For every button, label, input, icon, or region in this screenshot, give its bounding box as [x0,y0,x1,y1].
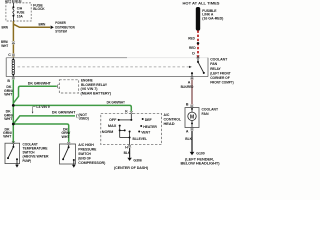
relay switch contacts [192,58,204,77]
wire branch to A/C head pin K [13,105,131,111]
svg-text:WHT: WHT [62,135,71,139]
svg-text:G100: G100 [196,151,204,155]
pin B of relay [12,77,15,80]
splice [197,42,200,45]
fusible link A [196,7,200,31]
svg-text:G306: G306 [133,158,141,162]
svg-text:RED: RED [189,46,196,50]
svg-text:COMPRESSOR): COMPRESSOR) [78,161,106,165]
mode switch wiring [119,114,132,145]
svg-text:BLOCK: BLOCK [33,7,45,11]
ground left switch [15,165,19,168]
wire RED dashed from fusible link to relay pin D [197,31,199,58]
pin connector [12,141,15,144]
fuse block dashed box [6,3,31,21]
svg-text:POWER: POWER [55,21,66,25]
svg-text:HEAD: HEAD [164,122,175,126]
connector at blower relay [56,84,59,88]
svg-text:DK GRN/WHT: DK GRN/WHT [52,110,76,114]
svg-text:DK GRN/WHT: DK GRN/WHT [28,81,52,85]
svg-text:HOT AT ALL TIMES: HOT AT ALL TIMES [183,1,221,5]
wire BLK/RED relay to fan [191,79,193,104]
svg-text:DEF: DEF [145,118,153,122]
junction node [12,123,15,126]
svg-text:(NEAR BATTERY): (NEAR BATTERY) [81,91,112,95]
svg-text:A: A [186,129,189,133]
svg-text:BELOW HEADLIGHT): BELOW HEADLIGHT) [181,161,221,165]
svg-text:COOLANT: COOLANT [210,58,228,62]
wire branch NOT USED [13,116,75,124]
svg-text:RELAY: RELAY [210,67,221,71]
svg-text:HEATER: HEATER [143,125,157,129]
coolant fan relay box [6,58,208,77]
svg-text:COOLANT: COOLANT [202,107,219,111]
connector at NOT USED [75,114,78,118]
svg-text:(16 GA-RED): (16 GA-RED) [202,17,224,21]
contact nodes [130,119,132,121]
svg-text:VENT: VENT [141,130,151,134]
wire BLK fan to ground [191,131,193,152]
svg-text:B: B [186,103,189,107]
svg-text:L4 VIN 9: L4 VIN 9 [36,105,49,109]
pin H [128,145,131,148]
arrow to power distribution system [51,26,54,30]
ground G306 [127,158,131,161]
svg-text:D: D [192,51,195,55]
A/C control head dashed box [101,113,162,144]
ground G100 [190,152,195,155]
fuse C/H 10A [13,3,14,21]
pin connector [67,142,70,145]
pin A of relay [191,77,194,80]
svg-text:SYSTEM: SYSTEM [55,29,67,33]
wire BRN branch to power distribution [13,24,50,27]
svg-text:A/C HIGH: A/C HIGH [78,143,94,147]
svg-text:FRONT COMPT): FRONT COMPT) [210,81,234,85]
relay dashed actuation link [18,66,190,68]
A/C high pressure switch box [60,144,76,164]
svg-text:10A: 10A [17,14,23,18]
svg-text:FAN: FAN [202,112,209,116]
wire BLK head to ground [129,148,131,158]
svg-text:BLK/RED: BLK/RED [181,85,194,89]
ground right switch [72,165,76,168]
svg-text:BLK: BLK [124,151,131,155]
svg-text:SWITCH: SWITCH [78,152,91,156]
switch S2 contacts [63,145,74,165]
svg-text:NORM: NORM [102,130,113,134]
svg-text:MAX: MAX [108,124,117,128]
svg-text:CONTROL: CONTROL [164,117,182,121]
engine blower relay dashed box [59,80,78,93]
svg-text:WHT: WHT [1,44,9,48]
svg-text:BRN: BRN [2,25,9,29]
svg-text:PRESSURE: PRESSURE [78,147,97,151]
inline connector on BRN/WHT wire [12,42,15,45]
wire branch to A/C high pressure switch [13,124,68,142]
svg-text:OFF: OFF [109,118,117,122]
svg-text:WHT: WHT [4,117,13,121]
wire DK GRN/WHT main vertical [13,79,131,143]
svg-text:A/C: A/C [164,113,170,117]
svg-text:BI-LEVEL: BI-LEVEL [133,137,148,141]
label L4 VIN 9 with leader [33,107,36,112]
svg-text:USED): USED) [79,117,90,121]
wire branch to engine blower relay [13,86,57,103]
svg-text:H: H [125,146,128,150]
wire BRN vertical from fuse [13,21,50,58]
coolant temperature switch box [5,143,20,163]
switch S1 contacts [8,144,17,165]
coolant fan motor box [185,108,199,128]
svg-text:FAN: FAN [210,62,217,66]
svg-text:C: C [8,53,11,57]
svg-text:RED: RED [188,36,195,40]
svg-text:(END OF: (END OF [78,157,91,161]
svg-text:BLK: BLK [185,137,192,141]
relay coil [12,58,15,77]
motor M1 [188,108,196,128]
svg-text:WHT: WHT [4,93,13,97]
svg-text:B: B [7,79,10,83]
svg-text:CORNER OF: CORNER OF [210,76,230,80]
svg-text:(CENTER OF DASH): (CENTER OF DASH) [114,166,149,170]
svg-text:(LEFT FRONT: (LEFT FRONT [210,71,231,75]
junction node [12,104,15,107]
svg-text:DK GRN/WHT: DK GRN/WHT [107,100,126,104]
svg-text:WHT: WHT [3,135,12,139]
svg-text:BRN: BRN [39,22,46,26]
svg-text:PUMP): PUMP) [23,159,32,163]
svg-text:M: M [190,114,194,120]
